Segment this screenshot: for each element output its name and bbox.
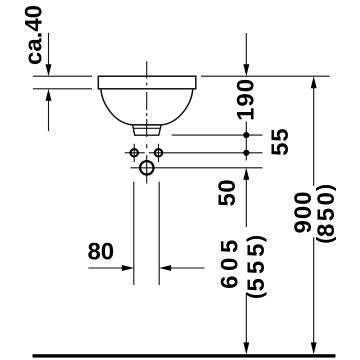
washbasin rim bbox=[98, 76, 196, 89]
dimension dot at drain level bbox=[243, 132, 249, 138]
svg-text:ca.40: ca.40 bbox=[20, 5, 47, 65]
dimension 190 line lower segment bbox=[245, 122, 247, 161]
dimension 80 right arrow bbox=[159, 265, 171, 271]
floor line bbox=[33, 354, 336, 357]
svg-text:50: 50 bbox=[214, 179, 241, 207]
dimension 190 line top segment bbox=[245, 33, 247, 65]
svg-text:80: 80 bbox=[87, 239, 114, 266]
centerline (dash-dot) bbox=[146, 61, 148, 183]
wire: left extension line bottom (rim bottom level) bbox=[33, 88, 92, 90]
faucet hole right crosshair vertical bbox=[158, 144, 160, 162]
dimension 605 line bottom segment bbox=[245, 293, 247, 343]
faucet hole left circle bbox=[131, 149, 138, 156]
wire: right extension line (rim top level) bbox=[201, 75, 330, 77]
dimension 80 extension line right bbox=[158, 182, 160, 285]
dimension 80 extension line left bbox=[133, 182, 135, 285]
washbasin drain trap cover bbox=[133, 125, 162, 135]
svg-text:(: ( bbox=[244, 292, 267, 299]
svg-text:55: 55 bbox=[267, 128, 294, 156]
dimension ca.40 upper arrow line bbox=[48, 33, 50, 65]
wire: left extension line top (rim top level) bbox=[33, 75, 92, 77]
faucet hole right circle bbox=[155, 149, 162, 156]
dimension dot at faucet level bbox=[243, 150, 249, 156]
wire: drain level reference line bbox=[172, 134, 263, 136]
drain outlet circle bbox=[140, 161, 153, 174]
dimension 900 line bottom segment bbox=[313, 237, 315, 343]
svg-text:555: 555 bbox=[243, 239, 270, 291]
wire: faucet holes level reference line right bbox=[149, 152, 263, 154]
dimension 900 top arrow bbox=[311, 76, 317, 88]
svg-text:): ) bbox=[244, 235, 267, 242]
svg-text:850: 850 bbox=[313, 190, 340, 237]
wire: supply level reference line bbox=[131, 167, 263, 169]
dimension 50 up arrow bbox=[243, 168, 249, 180]
svg-text:605: 605 bbox=[217, 235, 244, 289]
faucet hole left crosshair vertical bbox=[133, 144, 135, 162]
svg-text:): ) bbox=[314, 184, 337, 191]
dimension ca.40 lower arrow line bbox=[46, 89, 52, 101]
dimension 80 left arrow bbox=[88, 267, 122, 269]
wire: faucet holes level reference line left bbox=[125, 152, 145, 154]
washbasin bowl bbox=[101, 89, 193, 125]
svg-text:190: 190 bbox=[233, 78, 260, 121]
